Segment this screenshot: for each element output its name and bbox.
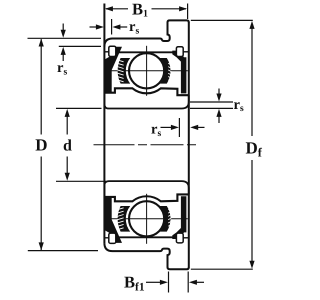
- dimension d: [56, 107, 102, 109]
- shield groove ticks: [104, 237, 109, 239]
- shield (right, top section): [172, 51, 186, 94]
- dimension r_s (outer ring chamfer, vertical): [28, 37, 102, 39]
- shield anchor ring (right): [176, 233, 183, 243]
- right face / flange OD line: [188, 22, 190, 268]
- left face line: [103, 4, 105, 244]
- cage (left, top section): [118, 206, 131, 232]
- ball: [129, 201, 164, 236]
- outer ring bore line: [116, 51, 177, 53]
- ball centerline: [106, 218, 188, 220]
- ball: [129, 53, 164, 88]
- ball crosshair: [146, 46, 148, 96]
- outer ring bore line: [116, 236, 177, 238]
- shield anchor ring (left): [109, 233, 116, 243]
- inner ring (top): [104, 88, 188, 95]
- cage (right, top section): [160, 58, 171, 84]
- ball crosshair: [146, 194, 148, 244]
- dimension r_s (outer ring chamfer, horizontal): [111, 19, 113, 35]
- cage (left, top section): [118, 58, 131, 84]
- inner ring (top): [104, 194, 188, 201]
- dimension r_s (inner ring chamfer, horizontal): [178, 118, 180, 137]
- dimension Df: [191, 19, 253, 21]
- axis centerline: [94, 144, 201, 146]
- svg-text:D: D: [35, 136, 47, 155]
- dimension D: [40, 39, 42, 134]
- dimension Bf1: [168, 272, 170, 293]
- outer ring OD profile and flange (top): [104, 243, 188, 269]
- outer ring OD profile and flange (top): [104, 20, 188, 46]
- svg-text:d: d: [63, 138, 72, 155]
- dimension B1: [187, 4, 189, 20]
- dimension r_s (inner ring chamfer, vertical): [190, 101, 233, 103]
- ball centerline: [106, 70, 188, 72]
- shield anchor ring (right): [176, 47, 183, 57]
- shield groove ticks: [104, 51, 109, 53]
- cage hatching: [117, 60, 124, 62]
- cage hatching: [117, 228, 124, 230]
- shield anchor ring (left): [109, 46, 116, 56]
- shield (right, top section): [172, 196, 186, 239]
- shield (left, top section): [105, 47, 122, 93]
- cage (right, top section): [160, 206, 171, 232]
- shield (left, top section): [105, 197, 122, 243]
- bottom half (mirror): [104, 181, 188, 269]
